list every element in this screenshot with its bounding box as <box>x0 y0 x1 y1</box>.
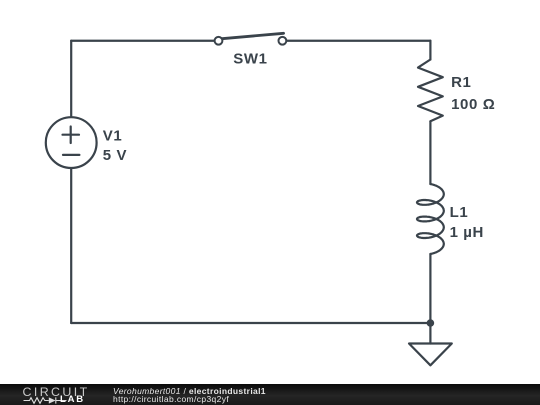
voltage source V1 minus sign <box>63 154 79 156</box>
footer bar <box>0 384 540 405</box>
switch SW1 blade <box>222 33 284 38</box>
wire top-left horizontal segment <box>71 40 214 42</box>
CircuitLab logo text CIRCUIT <box>23 386 90 398</box>
switch SW1 right terminal <box>279 37 287 45</box>
resistor R1 <box>418 60 443 122</box>
svg-text:V1: V1 <box>103 128 123 145</box>
ground <box>409 344 452 366</box>
svg-text:100 Ω: 100 Ω <box>451 96 495 113</box>
logo diode <box>49 397 56 403</box>
svg-text:SW1: SW1 <box>233 51 267 68</box>
junction node at ground <box>427 319 435 327</box>
inductor L1 <box>417 184 444 254</box>
wire bottom horizontal <box>71 322 430 324</box>
switch SW1 left terminal <box>215 37 223 45</box>
voltage source V1 circle <box>46 117 97 168</box>
svg-text:5 V: 5 V <box>103 147 127 164</box>
wire top-right horizontal segment <box>286 40 430 42</box>
CircuitLab logo text LAB <box>60 395 85 404</box>
footer credit line <box>113 387 266 396</box>
wire between R1 and L1 <box>429 121 431 184</box>
footer url line <box>113 395 229 404</box>
voltage source V1 plus sign <box>63 127 80 144</box>
svg-text:R1: R1 <box>451 74 471 91</box>
wire left vertical lower <box>70 168 72 323</box>
svg-text:L1: L1 <box>450 204 469 221</box>
svg-text:1 µH: 1 µH <box>450 224 484 241</box>
wire left vertical upper <box>70 41 72 117</box>
wire below L1 to ground <box>429 254 431 344</box>
CircuitLab logo schematic squiggle <box>23 396 69 405</box>
logo wire and resistor zigzag <box>24 398 49 404</box>
wire right vertical above R1 <box>429 41 431 60</box>
